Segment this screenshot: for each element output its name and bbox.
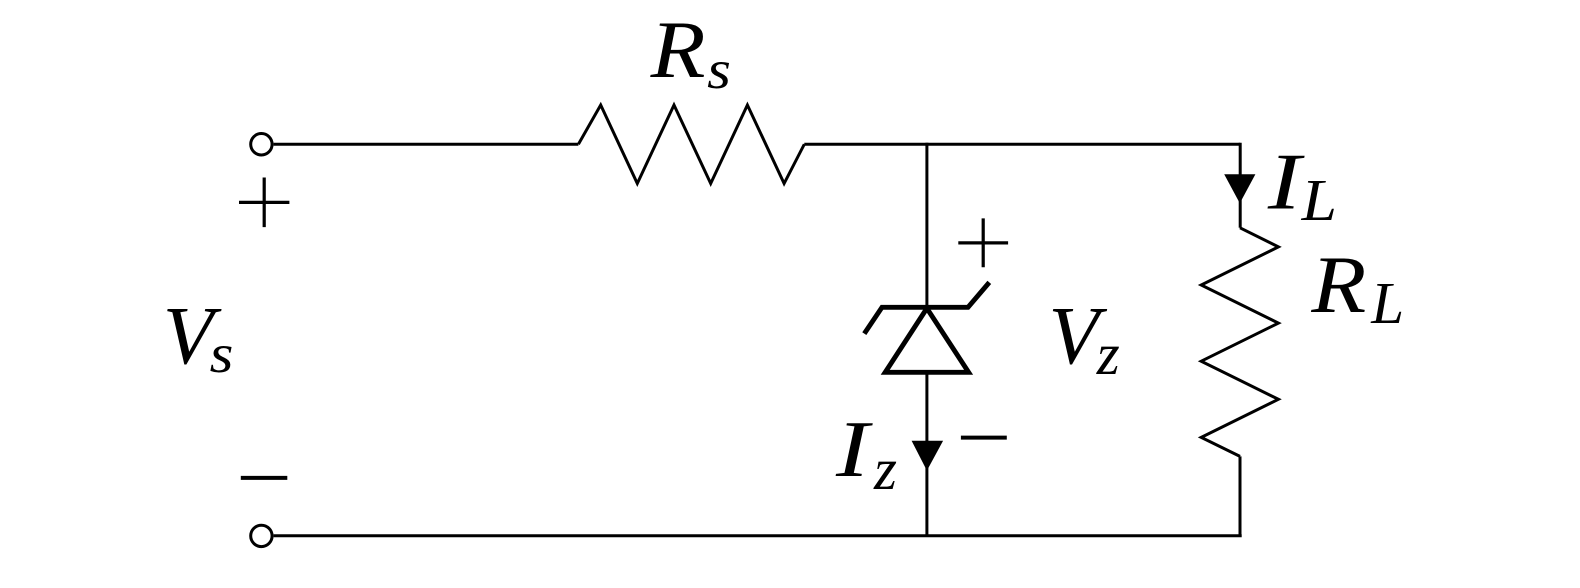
plus sign zener polarity [958,218,1008,267]
plus sign source polarity [239,178,289,228]
wire top-left segment [274,143,579,146]
svg-text:z: z [873,436,897,502]
svg-text:I: I [835,406,873,494]
wire right column lower [1239,456,1242,535]
current arrow IL [1224,174,1255,203]
wire zener top segment [925,143,928,305]
minus sign zener polarity [961,436,1007,440]
svg-text:I: I [1267,139,1305,227]
label RL [1310,239,1404,336]
wire bottom segment [274,534,1242,537]
wire top-middle segment [804,143,1240,146]
svg-text:L: L [1301,167,1337,233]
svg-text:R: R [1310,239,1366,330]
svg-text:L: L [1370,270,1404,336]
terminal bottom-left [251,525,272,546]
wire right column upper [1239,143,1242,228]
label Iz [835,406,897,502]
label Rs [650,4,731,100]
svg-text:R: R [650,4,706,95]
svg-text:s: s [210,323,234,384]
terminal top-left [251,134,272,155]
current arrow Iz [912,441,944,471]
label Vz [1049,289,1120,387]
wire zener bottom segment [925,372,928,536]
zener diode D1 triangle [885,308,968,372]
resistor Rs [578,105,804,184]
resistor RL [1201,228,1278,457]
minus sign source polarity [241,476,287,480]
label IL [1267,139,1337,234]
label Vs [163,290,234,385]
svg-text:z: z [1096,321,1120,387]
svg-text:s: s [707,39,731,100]
zener diode D1 cathode bar [864,282,989,333]
